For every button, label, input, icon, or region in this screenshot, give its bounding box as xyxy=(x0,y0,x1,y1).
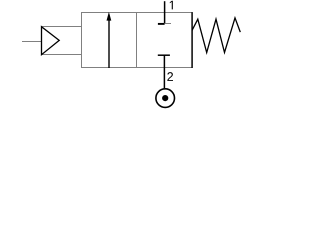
wire input lead xyxy=(22,41,42,43)
arrow shaft xyxy=(108,20,110,68)
spring xyxy=(192,18,240,53)
exhaust dot xyxy=(162,95,168,101)
port 1 T bar grey half xyxy=(165,23,171,25)
spring abutment (right edge, black) xyxy=(191,12,193,68)
pilot box top edge xyxy=(41,26,82,28)
pilot box bottom edge xyxy=(41,54,82,56)
valve body divider xyxy=(136,13,138,68)
label 2 xyxy=(167,72,173,81)
exhaust circle xyxy=(156,89,175,108)
port 1 stem xyxy=(164,1,166,24)
port 1 T bar black half xyxy=(158,23,165,25)
label 1 xyxy=(170,1,173,10)
pilot triangle xyxy=(42,27,60,55)
valve body xyxy=(82,13,193,68)
port 2 stem xyxy=(163,55,165,88)
port 2 T bar xyxy=(158,54,170,56)
arrow head xyxy=(107,12,112,21)
